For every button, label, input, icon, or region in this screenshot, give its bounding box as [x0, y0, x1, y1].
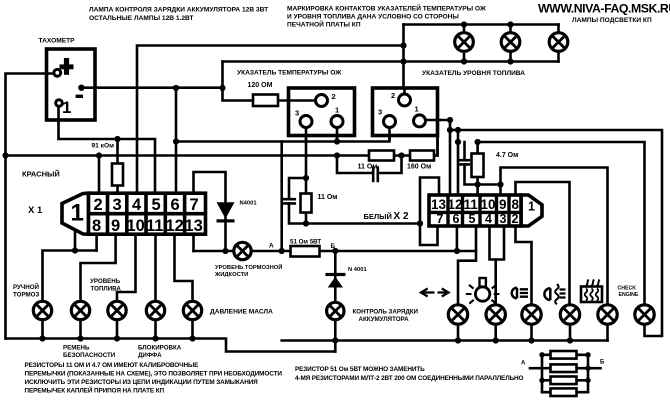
fuel gauge terminal 1: [414, 115, 426, 127]
wire pin8 line to fog lamp: [516, 182, 570, 305]
connector X1: [62, 193, 206, 234]
svg-text:Х 1: Х 1: [28, 205, 43, 216]
tachometer plus terminal: [54, 69, 61, 76]
svg-text:7: 7: [437, 212, 444, 226]
svg-text:ПЕЧАТНОЙ ПЛАТЫ КП: ПЕЧАТНОЙ ПЛАТЫ КП: [287, 20, 361, 29]
node pin6 X2: [454, 248, 460, 254]
X2 top row numbers 13-8: [431, 197, 520, 212]
node B: [332, 248, 338, 254]
node left rail junction: [2, 152, 8, 158]
svg-text:160 Ом: 160 Ом: [407, 164, 431, 171]
node diode1 bottom: [222, 248, 228, 254]
svg-text:БЕЛЫЙ: БЕЛЫЙ: [364, 212, 392, 221]
temp gauge terminal 3: [300, 116, 312, 128]
wire check lamp top line: [478, 142, 645, 305]
svg-text:5: 5: [469, 212, 476, 226]
svg-text:БЕЗОПАСНОСТИ: БЕЗОПАСНОСТИ: [63, 352, 116, 359]
lamp fog light: [560, 305, 579, 344]
lamp diff lock: [146, 301, 164, 341]
svg-text:10: 10: [127, 217, 145, 235]
svg-text:УРОВЕНЬ: УРОВЕНЬ: [90, 278, 121, 285]
temp gauge terminal 1: [331, 116, 343, 128]
tachometer minus symbol: [76, 95, 83, 98]
wire X1 pin1+pin8 to handbrake lamp: [43, 231, 97, 302]
wire X1 pin11 to diff lock lamp: [154, 234, 157, 302]
wire X2 pins 3+4 to bulb lamp: [490, 226, 505, 305]
wire X1 pin10 to fuel level lamp: [117, 234, 136, 302]
svg-text:91 кОм: 91 кОм: [92, 143, 115, 150]
svg-text:9: 9: [499, 197, 507, 212]
svg-text:ТОПЛИВА: ТОПЛИВА: [91, 286, 122, 293]
svg-text:ЖИДКОСТИ: ЖИДКОСТИ: [214, 272, 248, 278]
wire X1 pin12 to oil pressure lamp: [175, 234, 193, 302]
svg-text:11 Ом: 11 Ом: [358, 164, 378, 171]
resistor 91 kOm: [112, 164, 123, 186]
svg-text:ЛАМПА КОНТРОЛЯ ЗАРЯДКИ АККУМУЛ: ЛАМПА КОНТРОЛЯ ЗАРЯДКИ АККУМУЛЯТОРА 12В …: [89, 7, 268, 14]
wire fuel term1 node: [425, 120, 450, 195]
svg-text:ОСТАЛЬНЫЕ ЛАМПЫ 12В 1.2ВТ: ОСТАЛЬНЫЕ ЛАМПЫ 12В 1.2ВТ: [89, 15, 194, 22]
svg-text:12: 12: [448, 197, 463, 212]
lamp illumination 1: [455, 21, 474, 64]
resistor MLT 2: [551, 364, 577, 372]
icon heated rear window: [581, 280, 602, 303]
fuel gauge terminal 2: [399, 94, 411, 106]
wire pin9 line to heated window lamp: [478, 168, 608, 305]
svg-text:3: 3: [295, 109, 299, 118]
svg-text:ПЕРЕМЫЧЕК КАПЛЕЙ ПРИПОЯ НА ПЛА: ПЕРЕМЫЧЕК КАПЛЕЙ ПРИПОЯ НА ПЛАТЕ КП: [25, 386, 165, 395]
wire tach plus to left rail: [6, 74, 54, 339]
wire cap under rail 11om: [337, 156, 402, 182]
wire X1 pin7 to diode: [194, 172, 226, 251]
svg-text:1: 1: [335, 106, 339, 115]
lamp illumination 3: [549, 25, 568, 62]
svg-text:ТОРМОЗ: ТОРМОЗ: [13, 292, 39, 299]
svg-text:WWW.NIVA-FAQ.MSK.RU: WWW.NIVA-FAQ.MSK.RU: [538, 2, 670, 16]
svg-text:CHECK: CHECK: [618, 286, 637, 292]
temp gauge internal stubs: [289, 101, 337, 140]
svg-text:N 4001: N 4001: [348, 267, 367, 273]
svg-text:1: 1: [62, 98, 71, 117]
lamp outside light: [486, 305, 505, 344]
svg-text:12: 12: [166, 217, 184, 235]
resistor 160 Om: [410, 151, 434, 161]
resistor 4.7 Om: [472, 154, 484, 178]
lamp oil pressure: [183, 301, 201, 341]
wire tach minus line: [81, 88, 389, 251]
X2 bottom row numbers 7-2: [437, 212, 519, 226]
svg-text:8: 8: [512, 197, 520, 212]
resistor MLT 3: [551, 377, 577, 385]
diode N4001 D1: [217, 202, 235, 222]
svg-text:7: 7: [190, 196, 199, 214]
svg-text:РЕЗИСТОРЫ 11 ОМ И 4.7 ОМ ИМЕЮТ: РЕЗИСТОРЫ 11 ОМ И 4.7 ОМ ИМЕЮТ КАЛИБРОВО…: [25, 362, 200, 369]
svg-text:ПЕРЕМЫЧКИ (ПОКАЗАННЫЕ НА СХЕМЕ: ПЕРЕМЫЧКИ (ПОКАЗАННЫЕ НА СХЕМЕ), ЭТО ПОЗ…: [25, 371, 283, 378]
svg-text:РЕМЕНЬ: РЕМЕНЬ: [63, 345, 90, 352]
svg-text:Б: Б: [600, 360, 605, 366]
wire 120 Om branch: [223, 62, 316, 101]
svg-text:И УРОВНЯ ТОПЛИВА ДАНА УСЛОВНО: И УРОВНЯ ТОПЛИВА ДАНА УСЛОВНО СО СТОРОНЫ: [287, 14, 459, 21]
svg-text:1: 1: [415, 105, 419, 114]
lamp handbrake: [33, 301, 51, 341]
node 91kOm top: [114, 136, 120, 142]
svg-text:ДАВЛЕНИЕ МАСЛА: ДАВЛЕНИЕ МАСЛА: [210, 309, 273, 316]
diode N4001 D2: [326, 273, 346, 288]
lamp seatbelt: [71, 301, 89, 341]
fuel gauge terminal 3: [384, 116, 396, 128]
wire bottom-left ground rail: [6, 339, 336, 352]
wire X2 pin6 stub: [456, 226, 459, 251]
svg-text:4: 4: [485, 212, 492, 226]
icon turn signal arrows: [421, 289, 449, 297]
svg-text:2: 2: [94, 196, 103, 214]
svg-text:51 Ом 5ВТ: 51 Ом 5ВТ: [290, 239, 321, 246]
svg-text:11 Ом: 11 Ом: [318, 194, 338, 201]
resistor MLT 4: [551, 388, 577, 396]
svg-text:Х 2: Х 2: [394, 211, 409, 222]
svg-text:4: 4: [132, 196, 142, 214]
connector X2: [429, 195, 542, 226]
svg-text:3: 3: [378, 108, 382, 117]
tachometer plus symbol: [60, 58, 74, 75]
svg-text:2: 2: [332, 92, 336, 101]
svg-text:4.7 Ом: 4.7 Ом: [496, 152, 518, 159]
svg-text:РУЧНОЙ: РУЧНОЙ: [13, 283, 40, 291]
svg-text:ИСКЛЮЧИТЬ ЭТИ РЕЗИСТОРЫ ИЗ ЦЕП: ИСКЛЮЧИТЬ ЭТИ РЕЗИСТОРЫ ИЗ ЦЕПИ ИНДИКАЦИ…: [25, 379, 259, 386]
svg-text:N4001: N4001: [240, 201, 258, 207]
svg-text:13: 13: [185, 217, 203, 235]
wire red rail y156: [6, 120, 438, 156]
wire ground rail right: [282, 325, 608, 341]
svg-text:А: А: [269, 243, 274, 250]
node pin2 rail: [96, 152, 102, 158]
X1 bottom row numbers 8-13: [92, 217, 203, 235]
icon fog light: [544, 284, 565, 304]
resistor 51 Om 5W: [291, 246, 320, 257]
svg-text:ENGINE: ENGINE: [619, 292, 639, 298]
icon bulb with rays: [466, 278, 500, 304]
parallel resistor network rails: [530, 355, 601, 392]
node fuel2 column: [400, 42, 406, 48]
wire X2 pin5 to turn lamp: [458, 226, 476, 305]
wire gauge common y251: [194, 234, 477, 251]
temp gauge terminal 2: [316, 95, 328, 107]
lamp fuel level: [108, 301, 126, 341]
svg-text:ТАХОМЕТР: ТАХОМЕТР: [39, 38, 76, 45]
svg-text:УКАЗАТЕЛЬ ТЕМПЕРАТУРЫ ОЖ: УКАЗАТЕЛЬ ТЕМПЕРАТУРЫ ОЖ: [237, 70, 341, 77]
temp gauge box: [289, 88, 355, 136]
svg-text:РЕЗИСТОР 51 Ом 5ВТ МОЖНО ЗАМЕ: РЕЗИСТОР 51 Ом 5ВТ МОЖНО ЗАМЕНИТЬ: [295, 366, 425, 373]
lamp charge control: [327, 302, 344, 319]
svg-text:Б: Б: [331, 243, 336, 250]
svg-text:6: 6: [171, 196, 180, 214]
lamp turn signals: [448, 305, 467, 344]
svg-text:УРОВЕНЬ ТОРМОЗНОЙ: УРОВЕНЬ ТОРМОЗНОЙ: [215, 263, 282, 271]
svg-text:2: 2: [391, 91, 395, 100]
svg-text:МАРКИРОВКА КОНТАКТОВ УКАЗАТЕЛЕ: МАРКИРОВКА КОНТАКТОВ УКАЗАТЕЛЕЙ ТЕМПЕРАТ…: [287, 4, 486, 13]
wire illumination bottom rail: [223, 60, 559, 63]
svg-text:2: 2: [512, 212, 519, 226]
svg-text:13: 13: [431, 197, 447, 212]
wire X2 pin2 to lowbeam lamp: [516, 226, 532, 305]
svg-text:8: 8: [92, 217, 101, 235]
node A: [279, 248, 285, 254]
svg-text:6: 6: [453, 212, 460, 226]
lamp brake fluid level: [234, 242, 251, 259]
wire X1 pin4 line: [137, 46, 404, 195]
tachometer internal stubs: [47, 74, 59, 123]
wire X1 pin2 stub: [98, 156, 101, 195]
svg-text:АККУМУЛЯТОРА: АККУМУЛЯТОРА: [359, 316, 410, 323]
node 120om drop: [219, 85, 225, 91]
X1 top row numbers 2-7: [94, 196, 199, 214]
svg-text:11: 11: [464, 197, 479, 212]
lamp check engine: [635, 305, 654, 324]
wire tach terminal1 to pins 3,5: [59, 106, 156, 194]
note resistor 51 right: [295, 366, 524, 382]
tachometer terminal 1: [56, 100, 63, 107]
svg-text:БЛОКИРОВКА: БЛОКИРОВКА: [138, 345, 182, 352]
tachometer box: [47, 49, 96, 120]
lamp heated window: [598, 305, 617, 324]
lamp low beam: [522, 305, 541, 344]
svg-text:ДИФФА: ДИФФА: [138, 352, 162, 359]
svg-text:120 ОМ: 120 ОМ: [248, 82, 273, 89]
wire outer frame to check lamp bottom: [450, 130, 662, 336]
wire RC2 4.7om: [460, 142, 477, 195]
svg-text:3: 3: [500, 212, 507, 226]
node minus split: [173, 85, 179, 91]
svg-text:10: 10: [481, 197, 496, 212]
svg-text:КРАСНЫЙ: КРАСНЫЙ: [22, 170, 60, 179]
wire RC1 temp gauge term3: [284, 128, 306, 224]
resistor MLT 1: [551, 351, 577, 359]
svg-text:ЛАМПЫ ПОДСВЕТКИ КП: ЛАМПЫ ПОДСВЕТКИ КП: [572, 17, 652, 24]
note resistors left: [25, 362, 283, 395]
fuel gauge internal stubs: [390, 89, 441, 139]
svg-text:А: А: [521, 361, 526, 367]
wire X1 pin9 to seatbelt lamp: [81, 234, 116, 302]
resistor 11 Om horizontal: [369, 151, 394, 161]
icon low beam headlight: [512, 288, 528, 299]
svg-text:9: 9: [111, 217, 120, 235]
svg-text:КОНТРОЛЬ ЗАРЯДКИ: КОНТРОЛЬ ЗАРЯДКИ: [353, 309, 419, 316]
svg-text:4-МЯ РЕЗИСТОРАМИ МЛТ-2 2ВТ 200: 4-МЯ РЕЗИСТОРАМИ МЛТ-2 2ВТ 200 ОМ СОЕДИН…: [295, 375, 524, 382]
wire RC1 to X2 pins7-13: [306, 178, 439, 246]
svg-text:УКАЗАТЕЛЬ УРОВНЯ ТОПЛИВА: УКАЗАТЕЛЬ УРОВНЯ ТОПЛИВА: [422, 70, 525, 77]
wire V2 stub to X2 pin12: [457, 130, 460, 195]
resistor 120 Om: [253, 95, 278, 107]
svg-text:1: 1: [71, 200, 84, 227]
fuel gauge box: [373, 88, 438, 136]
resistor 11 Om vertical: [301, 194, 312, 213]
wire node B branch down: [334, 251, 337, 352]
svg-text:5: 5: [152, 196, 161, 214]
wire illumination top rail: [404, 25, 559, 88]
svg-text:1: 1: [528, 200, 535, 214]
svg-text:3: 3: [113, 196, 122, 214]
svg-text:11: 11: [146, 217, 163, 235]
tachometer minus terminal dot: [78, 85, 84, 91]
lamp illumination 2: [501, 21, 520, 64]
